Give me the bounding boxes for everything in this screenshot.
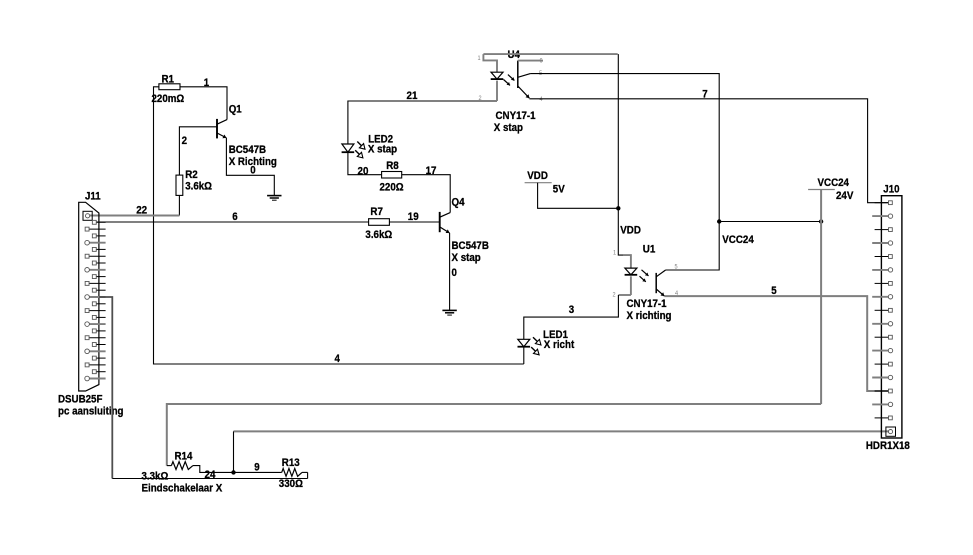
svg-text:20: 20	[358, 166, 369, 178]
label R13	[282, 457, 300, 469]
net label 0 (Q1 emitter)	[250, 165, 255, 177]
connector J10 body	[881, 196, 902, 438]
wire net 4 vertical+horizontal (R1 left to LED1 cathode)	[154, 87, 524, 364]
power VDD symbol	[525, 182, 552, 184]
svg-text:0: 0	[452, 267, 457, 279]
wire 1 (R1 to Q1 collector)	[180, 87, 227, 120]
transistor Q1	[217, 119, 227, 138]
label 24V	[836, 190, 854, 202]
label J11	[85, 190, 101, 202]
J11 pin 9	[85, 268, 106, 273]
wire VCC24 vertical (gray)	[820, 190, 822, 405]
wire 22 (J11 pin1 to R2, gray)	[90, 215, 180, 217]
label LED2	[368, 133, 393, 145]
svg-text:220mΩ: 220mΩ	[152, 93, 185, 105]
connector J11 body	[79, 202, 99, 391]
J11 pin 5	[85, 240, 106, 245]
resistor R13 (zigzag)	[282, 469, 302, 477]
label 5V	[553, 184, 565, 196]
junction (node 24/9)	[231, 470, 235, 474]
wire 21 (LED2 anode to U4 pin2)	[348, 101, 497, 144]
wire R2 bottom lead	[178, 195, 180, 215]
U1 pin number 5	[675, 264, 678, 271]
J10 pin 8	[872, 295, 893, 299]
wire R13 right lead	[302, 471, 308, 473]
J10 pin 17	[875, 416, 893, 420]
J11 pin 22	[92, 356, 105, 360]
label R8	[386, 160, 399, 172]
svg-text:9: 9	[254, 462, 259, 474]
svg-text:pc aansluiting: pc aansluiting	[58, 406, 124, 418]
J10 pin 5	[875, 255, 893, 259]
U1 pin number 1	[613, 250, 616, 257]
LED LED2	[342, 144, 355, 152]
J10 pin 14	[872, 375, 893, 379]
J11 pin 3	[85, 227, 105, 231]
J10 pin 2	[872, 214, 893, 218]
wire net 2 (Q1 base to R2)	[179, 127, 217, 175]
wire label 19	[408, 211, 419, 223]
J10 pin 16	[872, 402, 893, 406]
label R2	[185, 169, 198, 181]
svg-text:R1: R1	[162, 73, 175, 85]
wire label 17	[426, 165, 437, 177]
LED2 arrow 1	[357, 142, 365, 150]
J10 pin 9	[875, 308, 893, 312]
value 3.3k&#937; (R14)	[142, 471, 169, 483]
wire label 20	[358, 166, 369, 178]
resistor R1	[159, 84, 180, 90]
svg-text:X richting: X richting	[627, 310, 672, 322]
svg-text:R13: R13	[282, 457, 300, 469]
svg-text:U1: U1	[643, 243, 656, 255]
junction (VDD node)	[616, 206, 620, 210]
optocoupler U1	[618, 255, 665, 296]
wire LED1 cathode lead	[523, 347, 525, 364]
svg-text:3.3kΩ: 3.3kΩ	[142, 471, 169, 483]
label X stap (U4)	[494, 122, 523, 134]
wire gray rail y430.8 (to J10 pin18)	[234, 430, 889, 432]
svg-text:Q1: Q1	[229, 103, 243, 115]
label R1	[162, 73, 175, 85]
svg-text:J10: J10	[883, 184, 899, 196]
label X stap (LED2)	[368, 143, 397, 155]
svg-text:1: 1	[613, 250, 616, 257]
label pc aansluiting	[58, 406, 124, 418]
J11 pin 16	[92, 315, 105, 319]
value 220&#937; (R8)	[380, 181, 404, 193]
J11 pin 15	[85, 309, 105, 313]
J10 pin 18 (boxed)	[886, 427, 896, 436]
wire 5 (U1 pin4 to J10 pin15, gray)	[664, 296, 888, 391]
wire Q1 emitter to ground	[226, 138, 274, 196]
svg-text:21: 21	[407, 90, 418, 102]
svg-text:3: 3	[569, 304, 574, 316]
svg-text:CNY17-1: CNY17-1	[496, 110, 537, 122]
wire U4 pin1 top rail (gray, to VDD drop)	[483, 53, 617, 55]
U4 pin number 6	[540, 58, 543, 65]
value 330&#937; (R13)	[279, 478, 303, 490]
J11 pin 6	[92, 247, 105, 251]
svg-text:19: 19	[408, 211, 419, 223]
J11 pin 8	[92, 261, 105, 265]
J11 pin 11	[85, 281, 105, 285]
U1 pin number 2	[613, 292, 616, 299]
J11 pin 13	[85, 295, 106, 300]
U4 pin number 5	[539, 70, 542, 77]
J11 pin 14	[92, 302, 105, 306]
label X stap (Q4)	[452, 252, 481, 264]
net label 0 (Q4 emitter)	[452, 267, 457, 279]
label U1	[643, 243, 656, 255]
svg-text:5: 5	[771, 285, 777, 297]
optocoupler U4	[483, 54, 530, 101]
svg-text:CNY17-1: CNY17-1	[627, 298, 668, 310]
J10 pin 10	[872, 322, 893, 326]
wire label 3	[569, 304, 574, 316]
label CNY17-1 (U1)	[627, 298, 668, 310]
net label VCC24	[722, 234, 754, 246]
svg-text:R7: R7	[370, 206, 383, 218]
wire bottom rail (J11 to R13 right)	[112, 472, 307, 478]
label R7	[370, 206, 383, 218]
J10 pin 3	[875, 228, 893, 232]
ground (Q1)	[267, 196, 281, 201]
wire label 2	[182, 135, 187, 147]
svg-text:24: 24	[205, 469, 216, 481]
label VDD (symbol)	[527, 170, 548, 182]
label Q4	[452, 197, 466, 209]
svg-text:HDR1X18: HDR1X18	[866, 440, 910, 452]
svg-text:Q4: Q4	[452, 197, 466, 209]
svg-text:17: 17	[426, 165, 437, 177]
net label VDD	[620, 225, 641, 237]
J10 pin 4	[872, 241, 893, 245]
wire junction vertical (y430.8 rail down to node)	[233, 431, 235, 472]
J11 pin 24	[92, 370, 105, 374]
LED2 arrow 2	[355, 150, 363, 158]
wire 19 (R7 to Q4 base)	[389, 221, 439, 223]
svg-text:22: 22	[136, 205, 147, 217]
wire 7 (U4 pin4 to J10 pin1)	[529, 99, 888, 203]
J11 pin 18	[92, 329, 105, 333]
label U4	[508, 49, 521, 61]
wire label 21	[407, 90, 418, 102]
junction (VCC24 vertical)	[819, 219, 823, 223]
J10 pin 13	[875, 362, 893, 366]
wire label 24	[205, 469, 216, 481]
resistor R2	[176, 175, 183, 195]
label X Richting (Q1)	[229, 156, 277, 168]
svg-text:R2: R2	[185, 169, 198, 181]
svg-text:2: 2	[613, 292, 616, 299]
wire U1 pin5 to VCC24 node	[666, 222, 720, 271]
wire 17 (R8 to Q4 collector)	[402, 175, 451, 213]
resistor R7	[369, 219, 390, 226]
J11 pin 10	[92, 275, 105, 279]
svg-text:220Ω: 220Ω	[380, 181, 404, 193]
transistor Q4	[440, 212, 451, 233]
svg-text:330Ω: 330Ω	[279, 478, 303, 490]
J11 pin 1 (boxed)	[83, 211, 92, 220]
svg-text:X stap: X stap	[494, 122, 523, 134]
LED1 arrow 1	[533, 337, 541, 345]
svg-text:Eindschakelaar X: Eindschakelaar X	[142, 482, 223, 494]
svg-text:R14: R14	[175, 450, 193, 462]
U4 pin number 2	[479, 95, 482, 102]
label BC547B (Q4)	[452, 240, 489, 252]
label Q1	[229, 103, 243, 115]
J11 pin 25	[85, 376, 106, 381]
J11 pin 7	[85, 254, 105, 258]
U4 pin number 1	[478, 55, 481, 62]
value 3.6k&#937; (R7)	[365, 229, 392, 241]
svg-text:2: 2	[479, 95, 482, 102]
wire label 22	[136, 205, 147, 217]
wire Q4 emitter to ground	[449, 233, 451, 310]
U4 pin number 4	[540, 96, 543, 103]
wire label 9	[254, 462, 259, 474]
svg-text:2: 2	[182, 135, 187, 147]
wire label 5	[771, 285, 777, 297]
LED LED1	[518, 339, 531, 346]
svg-text:R8: R8	[386, 160, 399, 172]
wire 20 (LED2 cathode to R8)	[348, 152, 382, 175]
J10 pin 15	[875, 389, 893, 393]
J11 pin 12	[92, 288, 105, 292]
J11 pin 20	[92, 343, 105, 347]
svg-text:BC547B: BC547B	[452, 240, 489, 252]
ground (Q4)	[442, 310, 456, 315]
svg-text:VCC24: VCC24	[818, 177, 850, 189]
svg-text:X stap: X stap	[368, 143, 397, 155]
wire U4 pin5 to VCC24 junction	[530, 74, 719, 222]
wire J11 pin13 down to bottom rail (gray)	[99, 297, 112, 479]
wire VCC24 rail horizontal	[719, 221, 821, 223]
J11 pin 21	[85, 349, 106, 354]
wire VDD to node	[538, 183, 619, 209]
wire 24 (R14 right to junction)	[193, 466, 234, 473]
svg-text:J11: J11	[85, 190, 101, 202]
J11 pin 23	[85, 363, 105, 367]
J10 pin 7	[875, 282, 893, 286]
wire U4 pin6 stub (gray)	[518, 60, 543, 62]
label R14	[175, 450, 193, 462]
wire label 6	[232, 211, 237, 223]
svg-text:DSUB25F: DSUB25F	[58, 394, 102, 406]
J11 pin 4	[92, 234, 105, 238]
wire VDD drop vertical (x618)	[618, 54, 623, 255]
svg-text:BC547B: BC547B	[229, 144, 266, 156]
svg-text:1: 1	[204, 77, 210, 89]
power VCC24 symbol	[808, 189, 835, 191]
J10 pin 1	[875, 201, 893, 205]
svg-text:24V: 24V	[836, 190, 854, 202]
label J10	[883, 184, 899, 196]
svg-text:6: 6	[232, 211, 237, 223]
svg-text:1: 1	[478, 55, 481, 62]
J10 pin 11	[875, 335, 893, 339]
svg-text:3.6kΩ: 3.6kΩ	[365, 229, 392, 241]
svg-text:VCC24: VCC24	[722, 234, 754, 246]
svg-text:7: 7	[702, 88, 707, 100]
svg-text:3.6kΩ: 3.6kΩ	[185, 181, 212, 193]
J11 pin 19	[85, 336, 105, 340]
junction (U1 pin5 / VCC24 rail)	[717, 219, 721, 223]
label HDR1X18	[866, 440, 910, 452]
svg-text:VDD: VDD	[527, 170, 548, 182]
wire label 7	[702, 88, 707, 100]
label CNY17-1 (U4)	[496, 110, 537, 122]
label X richt (LED1)	[544, 339, 575, 351]
value 3.6k&#937; (R2)	[185, 181, 212, 193]
label LED1	[543, 329, 568, 341]
svg-text:VDD: VDD	[620, 225, 641, 237]
J11 pin 2	[92, 220, 105, 224]
svg-text:4: 4	[335, 353, 341, 365]
wire gray rail y404 (R14 top to VCC24)	[167, 404, 821, 466]
svg-text:4: 4	[540, 96, 543, 103]
U1 pin number 4	[675, 290, 678, 297]
wire label 4	[335, 353, 341, 365]
resistor R14 (zigzag)	[167, 462, 193, 470]
wire label 1	[204, 77, 210, 89]
label DSUB25F	[58, 394, 102, 406]
J10 pin 12	[872, 348, 893, 352]
svg-text:X richt: X richt	[544, 339, 575, 351]
wire 3 (LED1 anode to U1 pin2)	[524, 295, 619, 339]
svg-text:X stap: X stap	[452, 252, 481, 264]
J11 pin 17	[85, 322, 106, 327]
J10 pin 6	[872, 268, 893, 272]
LED1 arrow 2	[531, 347, 539, 355]
label X richting (U1)	[627, 310, 672, 322]
wire 6 (J11 pin2 to R7)	[97, 221, 369, 223]
value 220m&#937;	[152, 93, 185, 105]
svg-text:5V: 5V	[553, 184, 565, 196]
label VCC24 (symbol)	[818, 177, 850, 189]
wire 9 (junction to R13)	[234, 471, 282, 473]
label Eindschakelaar X	[142, 482, 223, 494]
resistor R8	[382, 172, 402, 179]
label BC547B (Q1)	[229, 144, 266, 156]
